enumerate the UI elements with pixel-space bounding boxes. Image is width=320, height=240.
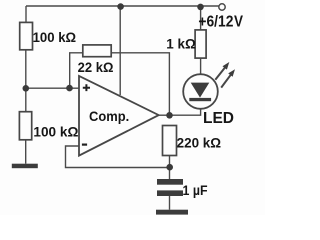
svg-text:100 kΩ: 100 kΩ (33, 123, 78, 139)
svg-text:+6/12: +6/12 (198, 14, 233, 31)
svg-text:Comp.: Comp. (89, 108, 129, 124)
svg-text:1 µF: 1 µF (183, 182, 208, 198)
svg-text:22 kΩ: 22 kΩ (78, 59, 114, 75)
svg-text:1 kΩ: 1 kΩ (166, 35, 196, 51)
svg-text:100 kΩ: 100 kΩ (33, 29, 77, 45)
svg-text:LED: LED (203, 110, 234, 127)
svg-text:220 kΩ: 220 kΩ (177, 134, 222, 150)
svg-text:V: V (234, 14, 243, 31)
